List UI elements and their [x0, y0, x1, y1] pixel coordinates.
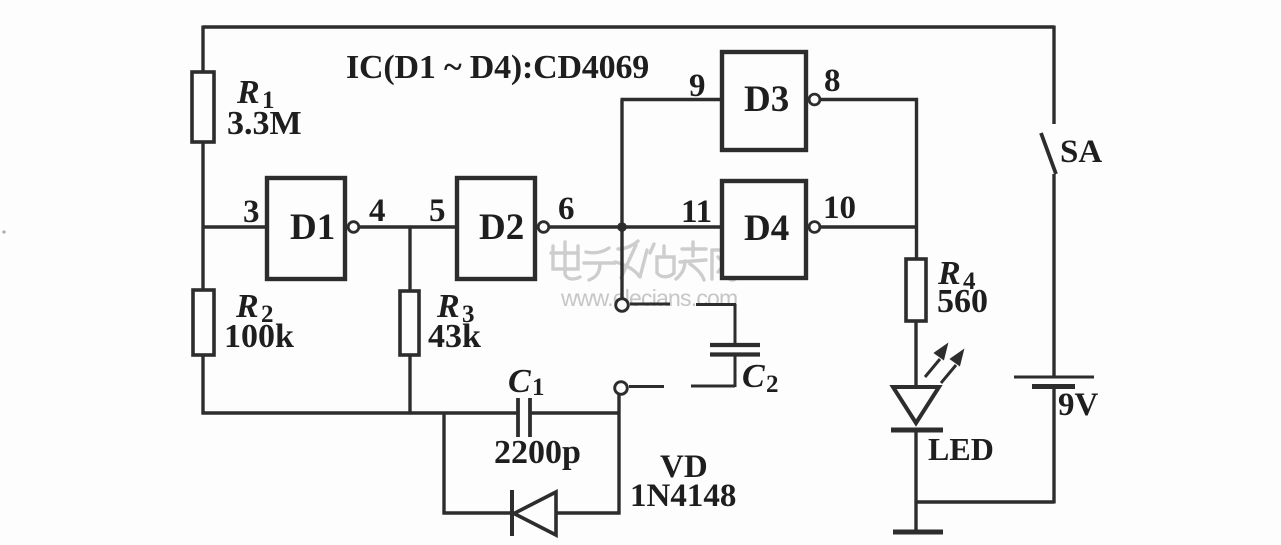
svg-text:10: 10: [823, 190, 856, 226]
wire battery to bottom bus: [1052, 389, 1055, 504]
wire R3 lower: [408, 355, 411, 413]
svg-text:43k: 43k: [428, 318, 481, 355]
svg-text:www.elecians.com: www.elecians.com: [560, 285, 737, 311]
svg-text:D4: D4: [744, 208, 789, 249]
gate D2: [457, 178, 535, 279]
wire pin9 input: [621, 98, 722, 101]
switch SA blade: [1041, 133, 1056, 174]
LED diode: [893, 387, 939, 423]
wire junction to terminal T1: [620, 227, 623, 299]
svg-text:IC(D1 ~ D4):CD4069: IC(D1 ~ D4):CD4069: [346, 49, 649, 86]
svg-text:5: 5: [429, 193, 446, 229]
terminal T1: [616, 299, 629, 312]
svg-text:C: C: [508, 363, 531, 400]
wire C1 right segment: [531, 411, 620, 414]
wire R4 to LED: [914, 322, 917, 388]
gate D4: [722, 181, 806, 278]
svg-text:LED: LED: [928, 431, 994, 467]
watermark logo dianzifashaoyou: [551, 241, 737, 280]
wire D2 to D4: [549, 225, 721, 228]
switch SA vertical stub: [1052, 26, 1055, 125]
LED arrows: [925, 346, 962, 383]
svg-text:D2: D2: [479, 207, 524, 248]
capacitor C2: [710, 343, 760, 347]
wire T2 down to diode bus: [617, 394, 620, 515]
wire T1 to C2 (dashed): [630, 303, 736, 307]
D2 output bubble: [538, 222, 549, 233]
svg-text:6: 6: [558, 191, 575, 227]
wire bottom-right bus: [916, 500, 1054, 503]
wire top bus: [203, 25, 1054, 28]
wire feedback vertical: [620, 100, 623, 228]
gate D3: [722, 52, 806, 150]
D3 output bubble: [809, 94, 820, 105]
svg-text:3: 3: [243, 194, 260, 230]
wire bottom-left bus: [202, 411, 519, 414]
gate D1: [267, 178, 345, 279]
D1 output bubble: [348, 222, 359, 233]
svg-text:D1: D1: [290, 207, 335, 248]
battery BT 9V: [1014, 376, 1094, 379]
wire diode branch left drop: [442, 413, 445, 515]
wire diode left lead: [443, 511, 513, 514]
wire pin8 output: [821, 98, 919, 101]
svg-text:1N4148: 1N4148: [630, 478, 736, 514]
resistor R2: [193, 290, 214, 355]
svg-text:2: 2: [766, 371, 779, 398]
svg-text:C: C: [742, 358, 765, 395]
junction node A: [617, 222, 627, 232]
svg-text:SA: SA: [1060, 134, 1102, 170]
stray mark left edge: [2, 230, 5, 233]
svg-text:560: 560: [937, 283, 988, 320]
wire pin3 input: [203, 225, 267, 228]
svg-text:D3: D3: [744, 79, 789, 120]
wire SA to battery: [1052, 174, 1055, 377]
terminal T2: [615, 382, 628, 395]
wire D1 to D2: [359, 225, 457, 228]
svg-text:9: 9: [689, 68, 706, 104]
wire C2 to T2 (dashed): [629, 356, 735, 387]
D4 output bubble: [809, 222, 820, 233]
svg-text:100k: 100k: [224, 318, 294, 355]
diode VD: [510, 490, 514, 536]
capacitor C1: [516, 398, 520, 437]
wire D3/D4 join vertical: [915, 98, 918, 259]
svg-text:8: 8: [824, 63, 841, 99]
wire LED to ground: [914, 430, 917, 532]
wire pin10 output: [821, 225, 917, 228]
resistor R3: [400, 291, 419, 355]
svg-text:9V: 9V: [1058, 387, 1099, 423]
resistor R4: [906, 259, 926, 321]
svg-text:11: 11: [681, 194, 712, 230]
ground: [893, 530, 943, 535]
svg-text:4: 4: [369, 193, 386, 229]
wire R3 drop: [408, 227, 411, 291]
wire left rail upper: [201, 26, 204, 73]
wire left rail middle: [201, 142, 204, 290]
wire left rail lower: [201, 355, 204, 415]
svg-text:3.3M: 3.3M: [227, 105, 302, 142]
svg-text:2200p: 2200p: [494, 434, 581, 471]
resistor R1: [192, 72, 214, 142]
svg-text:1: 1: [532, 374, 545, 401]
wire diode right lead: [556, 511, 621, 514]
